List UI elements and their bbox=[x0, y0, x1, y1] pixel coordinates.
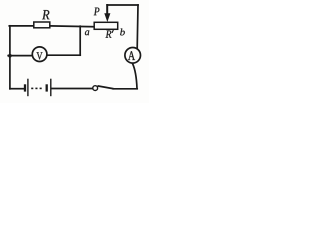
wire bottom right segment bbox=[113, 88, 137, 90]
wire V-branch vertical bbox=[79, 26, 81, 55]
battery cell 1 positive plate bbox=[27, 79, 29, 97]
wire slider top horizontal bbox=[107, 4, 138, 6]
wire ammeter bottom lead bbox=[133, 64, 138, 89]
label R-prime bbox=[106, 31, 112, 38]
label b bbox=[120, 29, 125, 36]
label R bbox=[42, 10, 49, 19]
voltmeter V1 circle bbox=[32, 47, 47, 62]
label A bbox=[128, 51, 135, 60]
label prime tick of R-prime bbox=[112, 30, 113, 33]
wire voltmeter branch left bbox=[8, 55, 32, 57]
ammeter A1 circle bbox=[125, 48, 141, 64]
battery cell 1 negative plate bbox=[24, 84, 26, 91]
wire bottom middle segment bbox=[52, 88, 93, 90]
wire voltmeter branch right bbox=[47, 54, 81, 56]
rheostat R2 box bbox=[94, 22, 118, 29]
wire left vertical bbox=[9, 26, 11, 89]
wire top left segment bbox=[9, 25, 34, 27]
resistor R1 box bbox=[34, 22, 50, 28]
battery cell 2 negative plate bbox=[46, 84, 48, 91]
label a bbox=[85, 30, 89, 35]
wire bottom left segment bbox=[10, 88, 24, 90]
wire right vertical bbox=[136, 5, 139, 48]
label P bbox=[94, 8, 100, 16]
switch S1 pivot circle bbox=[93, 86, 98, 91]
battery cell 2 positive plate bbox=[50, 79, 52, 97]
battery dashes bbox=[31, 87, 42, 89]
label V bbox=[36, 52, 42, 59]
rheostat slider arrowhead P bbox=[104, 13, 110, 22]
node junction dot left bbox=[8, 54, 12, 58]
switch S1 lever bbox=[98, 86, 114, 89]
wire slider riser bbox=[106, 5, 108, 14]
wire top middle segment bbox=[50, 25, 95, 28]
